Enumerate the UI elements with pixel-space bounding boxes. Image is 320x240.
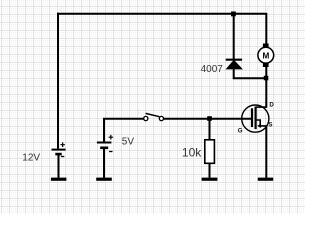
svg-text:2: 2 xyxy=(266,6,270,13)
svg-text:2: 2 xyxy=(59,6,63,13)
svg-text:1: 1 xyxy=(232,6,236,13)
battery B1 12V xyxy=(52,142,66,177)
wire from 5V battery up and right to switch xyxy=(104,119,144,142)
ground for MOSFET source xyxy=(258,178,273,181)
ground for resistor xyxy=(202,178,218,181)
wire from switch to MOSFET gate xyxy=(164,118,252,120)
ground for 12V battery xyxy=(51,178,67,181)
node junction dot diode branch on top rail xyxy=(231,12,236,17)
wire diode anode to motor/drain node xyxy=(234,68,268,78)
wire left vertical 12V positive xyxy=(57,13,59,149)
wire diode branch from top rail down xyxy=(233,13,235,59)
svg-text:10k: 10k xyxy=(182,146,202,160)
resistor R1 10k xyxy=(205,140,215,164)
node junction dot diode/motor/drain xyxy=(264,76,269,81)
ground for 5V battery xyxy=(96,178,112,181)
wire top rail corner down to motor xyxy=(265,13,267,45)
wire junction to resistor top xyxy=(209,119,211,141)
wire top rail from 12V to motor branch xyxy=(57,13,267,15)
switch S1 (open) xyxy=(144,113,164,120)
svg-text:G: G xyxy=(238,128,243,135)
transistor Q1 N-MOSFET xyxy=(242,105,269,132)
svg-text:D: D xyxy=(269,101,274,108)
wire MOSFET source to ground xyxy=(265,126,267,178)
svg-text:12V: 12V xyxy=(22,153,40,164)
svg-text:S: S xyxy=(268,122,272,129)
svg-text:1: 1 xyxy=(105,109,109,116)
svg-text:4007: 4007 xyxy=(201,64,224,75)
svg-text:M: M xyxy=(262,51,269,60)
svg-text:5V: 5V xyxy=(122,136,135,147)
motor M1 xyxy=(258,44,274,68)
wire motor bottom to MOSFET drain xyxy=(265,67,267,108)
battery B2 5V xyxy=(97,135,113,178)
svg-text:1: 1 xyxy=(137,109,141,116)
node junction dot gate/resistor xyxy=(207,116,212,121)
diode D1 4007 (cathode bar) xyxy=(226,60,242,69)
wire resistor bottom to ground xyxy=(209,163,211,178)
